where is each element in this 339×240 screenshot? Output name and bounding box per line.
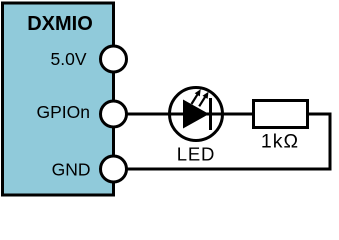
svg-text:GPIOn: GPIOn bbox=[37, 102, 91, 122]
svg-text:GND: GND bbox=[52, 160, 91, 180]
svg-text:LED: LED bbox=[177, 144, 215, 165]
svg-text:5.0V: 5.0V bbox=[51, 49, 87, 69]
svg-text:DXMIO: DXMIO bbox=[27, 13, 93, 35]
svg-text:1kΩ: 1kΩ bbox=[261, 131, 299, 153]
